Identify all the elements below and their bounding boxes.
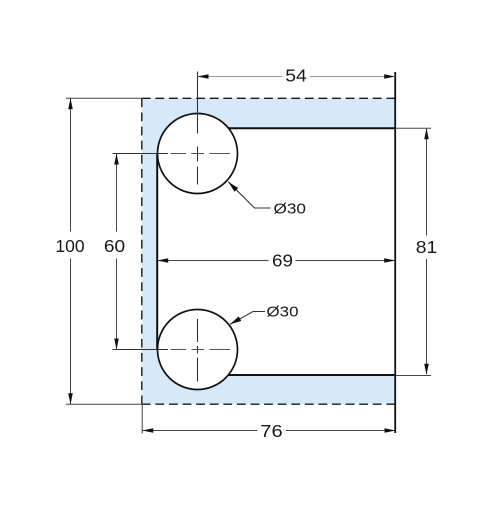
dashed glass outline left edge <box>141 98 143 404</box>
svg-text:Ø30: Ø30 <box>267 303 299 320</box>
clamp profile: bottom inner edge <box>228 374 395 376</box>
extension line below glass corner (for 76) <box>141 404 143 433</box>
dimension 81 arrows <box>424 128 429 374</box>
svg-text:60: 60 <box>104 236 125 256</box>
dimension 100 line <box>70 98 72 404</box>
extension line top left (for 100) <box>66 97 142 99</box>
centerline bottom circle horizontal <box>171 349 231 351</box>
dimension 54 line <box>198 76 396 78</box>
extension line bottom left (for 100) <box>66 403 142 405</box>
svg-text:69: 69 <box>272 251 293 271</box>
dimension 81 line <box>426 128 428 374</box>
right vertical edge / extension line <box>394 72 396 433</box>
leader top hole <box>228 182 270 208</box>
hole circle bottom (Ø30) <box>158 310 238 390</box>
dimension 60 line <box>116 154 118 350</box>
svg-text:100: 100 <box>55 236 84 256</box>
extension line right top (for 81) <box>395 127 431 129</box>
leader top hole arrow <box>228 182 238 192</box>
centerline bottom circle vertical <box>197 319 199 382</box>
dimension 60 arrows <box>114 154 119 350</box>
extension line right bottom (for 81) <box>396 375 431 377</box>
dimension 69 line <box>157 260 395 262</box>
centerline top circle horizontal <box>171 153 231 155</box>
extension line top circle center (for 60) <box>113 153 169 155</box>
dimension 100 arrows <box>68 98 73 404</box>
dimension 69 arrows <box>157 258 395 263</box>
svg-text:76: 76 <box>260 421 282 441</box>
hole circle top (Ø30) <box>158 114 238 194</box>
centerline top circle vertical <box>197 72 199 185</box>
svg-text:54: 54 <box>285 66 307 86</box>
clamp profile: left tangent edge <box>156 154 158 350</box>
dimension 54 arrows <box>198 74 396 79</box>
clamp profile: top inner edge <box>229 127 396 129</box>
extension line bottom circle center (for 60) <box>113 349 169 351</box>
leader bottom hole arrow <box>230 316 241 324</box>
glass panel fill (light blue ring between dashed glass outline and clamp profile) <box>142 98 395 404</box>
dimension 76 line <box>142 430 395 432</box>
svg-text:81: 81 <box>416 237 438 257</box>
svg-text:Ø30: Ø30 <box>274 200 307 217</box>
dimension 76 arrows <box>142 428 395 433</box>
dashed glass outline bottom edge <box>142 403 395 405</box>
leader bottom hole <box>230 312 265 325</box>
dashed glass outline top edge <box>142 97 395 99</box>
